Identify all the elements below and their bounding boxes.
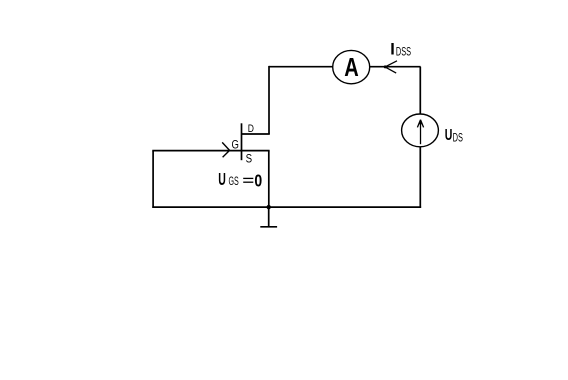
- label U_DS: [445, 126, 463, 145]
- voltage source U_DS (circle): [402, 114, 439, 147]
- svg-text:U: U: [218, 169, 226, 189]
- wire left vertical of gate loop: [152, 151, 154, 208]
- wire top-left horizontal (drain corner to ammeter): [269, 66, 333, 68]
- ammeter A (circle): [333, 50, 370, 83]
- svg-text:A: A: [344, 52, 359, 82]
- svg-text:I: I: [390, 40, 395, 58]
- wire bottom horizontal: [152, 206, 421, 208]
- svg-text:GS: GS: [229, 174, 239, 188]
- current arrow for I_DSS (points left toward ammeter): [385, 61, 397, 73]
- svg-text:DS: DS: [453, 131, 463, 145]
- wire vertical drain riser: [268, 66, 270, 134]
- svg-text:0: 0: [254, 171, 262, 191]
- label I_DSS: [390, 40, 411, 58]
- wire source-loop right vertical: [268, 151, 270, 208]
- wire top-right horizontal (ammeter to source corner): [370, 66, 421, 68]
- transistor JFET: gate arrowhead: [222, 142, 229, 157]
- svg-text:G: G: [232, 138, 239, 152]
- wire right vertical lower (U_DS source to bottom wire): [419, 147, 421, 208]
- wire gate horizontal + source lead (passes through channel): [152, 150, 269, 152]
- wire right vertical upper (top wire to U_DS source): [419, 67, 421, 115]
- wire drain lead horizontal: [242, 133, 270, 135]
- ground bar: [260, 226, 277, 228]
- junction node (dot): [267, 205, 271, 209]
- svg-text:S: S: [246, 152, 253, 166]
- voltage source U_DS (arrow up inside): [417, 120, 423, 144]
- svg-text:DSS: DSS: [396, 45, 411, 59]
- svg-text:U: U: [445, 126, 453, 144]
- ground stem: [268, 207, 270, 227]
- label U_GS = 0: [218, 169, 262, 191]
- transistor JFET: channel bar: [241, 123, 243, 160]
- svg-text:D: D: [248, 123, 254, 135]
